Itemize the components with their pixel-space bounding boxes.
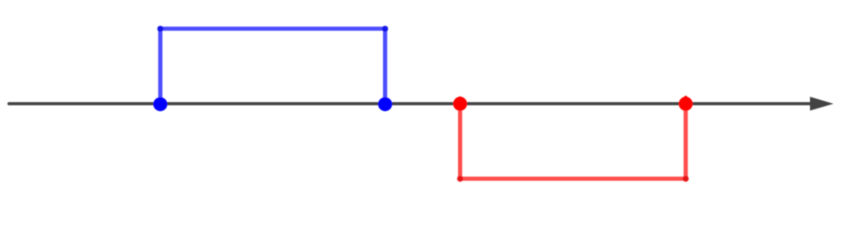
blue pulse outline (left vertical, top, right vertical) (160, 29, 385, 104)
red endpoint dot left on axis (453, 97, 467, 111)
red endpoint dot right on axis (679, 97, 693, 111)
red corner vertex dot bottom-left (457, 176, 463, 182)
red pulse outline (left vertical, bottom, right vertical) (460, 104, 686, 179)
red small vertex nub above left dot (459, 96, 462, 99)
blue endpoint dot left on axis (153, 97, 167, 111)
x-axis line (9, 102, 813, 105)
red small vertex nub above right dot (684, 96, 687, 99)
x-axis arrowhead (810, 97, 834, 111)
red corner vertex dot bottom-right (683, 176, 689, 182)
blue endpoint dot right on axis (378, 97, 392, 111)
blue corner vertex dot top-left (157, 26, 163, 32)
blue corner vertex dot top-right (382, 26, 388, 32)
